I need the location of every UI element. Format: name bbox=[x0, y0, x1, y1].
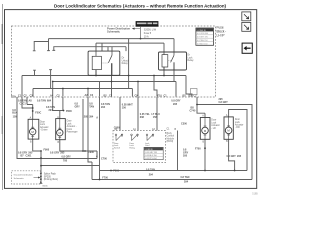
wire relay K1 output to pin B2 bbox=[111, 63, 113, 96]
svg-text:Door: Door bbox=[211, 119, 216, 122]
wire labels left column bbox=[12, 99, 94, 162]
svg-text:156: 156 bbox=[153, 116, 158, 119]
svg-text:Actuator: Actuator bbox=[211, 124, 220, 127]
svg-text:295: 295 bbox=[183, 155, 188, 158]
svg-text:Switch: Switch bbox=[114, 146, 120, 149]
svg-text:Front: Front bbox=[67, 128, 73, 131]
svg-text:A: A bbox=[96, 117, 98, 120]
svg-text:795: 795 bbox=[63, 160, 68, 163]
bus wire y75.7 bbox=[22, 76, 192, 97]
door lock actuator driver bbox=[28, 119, 39, 139]
svg-text:- RR: - RR bbox=[235, 127, 240, 129]
wire relay K1 switch drop bbox=[111, 47, 113, 51]
svg-text:Body: Body bbox=[167, 133, 173, 135]
wire labels center column bbox=[75, 103, 190, 184]
svg-text:0.8 TAN: 0.8 TAN bbox=[181, 176, 190, 179]
svg-text:0.8 GRY 295: 0.8 GRY 295 bbox=[197, 37, 208, 39]
wire ground bus y158 bbox=[41, 158, 97, 160]
svg-text:519B: 519B bbox=[252, 194, 258, 195]
wire ground bus y165.7 bbox=[41, 165, 100, 167]
HOT AT ALL TIMES black banner bbox=[136, 21, 159, 27]
door lock actuator RR bbox=[224, 117, 233, 139]
svg-text:F50C: F50C bbox=[35, 112, 41, 115]
svg-text:294: 294 bbox=[184, 181, 189, 184]
wire x120 drop to C900 bbox=[119, 97, 121, 131]
svg-text:Lock: Lock bbox=[40, 124, 46, 126]
svg-text:F700: F700 bbox=[102, 177, 108, 180]
wire jog to pin F10 bbox=[154, 76, 157, 97]
svg-text:Cntrl: Cntrl bbox=[145, 144, 150, 147]
svg-text:0.8 GRY: 0.8 GRY bbox=[50, 151, 60, 154]
wire long vertical x128.6 bbox=[128, 39, 130, 89]
wire relay K2 coil drop bbox=[163, 43, 165, 52]
svg-text:Schematic: Schematic bbox=[14, 177, 25, 180]
switch S2 unlock bbox=[131, 134, 139, 141]
svg-text:F700: F700 bbox=[195, 148, 201, 151]
wire stub x50.6 bbox=[49, 70, 52, 89]
connector box at pin B2 bbox=[191, 89, 198, 95]
wire x138 drop to door module bbox=[137, 97, 139, 131]
svg-text:Door: Door bbox=[235, 118, 240, 121]
wire right loop inner to RR A bbox=[229, 110, 247, 171]
svg-text:338: 338 bbox=[140, 116, 145, 119]
svg-text:0.35 GRY 295: 0.35 GRY 295 bbox=[145, 152, 157, 154]
wire right loop outer bbox=[197, 105, 252, 180]
wire relay K2 switch drop bbox=[173, 39, 175, 52]
outer frame of schematic viewer bbox=[5, 10, 257, 189]
svg-text:0.8 GRY: 0.8 GRY bbox=[227, 155, 237, 158]
svg-text:0.35 PPL 694: 0.35 PPL 694 bbox=[145, 158, 156, 160]
svg-text:0.35 BLK 150: 0.35 BLK 150 bbox=[145, 155, 156, 157]
svg-text:F900: F900 bbox=[44, 149, 50, 152]
svg-text:0.8 TAN 294: 0.8 TAN 294 bbox=[197, 39, 207, 42]
legend table in module bbox=[144, 147, 163, 160]
svg-text:295: 295 bbox=[84, 116, 89, 119]
svg-text:294: 294 bbox=[149, 173, 154, 176]
svg-text:150: 150 bbox=[13, 115, 18, 118]
svg-text:Actuator -: Actuator - bbox=[67, 125, 77, 128]
svg-text:C700: C700 bbox=[101, 158, 107, 161]
svg-text:Door Lock/Indicator Schematics: Door Lock/Indicator Schematics (Actuator… bbox=[54, 3, 226, 9]
wire pin drop x88 bbox=[87, 89, 89, 97]
bus wire B+ feed y38.6 bbox=[49, 38, 175, 40]
wire x88 drop to bottom bus bbox=[88, 97, 92, 180]
svg-text:295: 295 bbox=[60, 151, 65, 154]
svg-text:694: 694 bbox=[47, 99, 52, 102]
svg-text:F10: F10 bbox=[158, 94, 163, 97]
pin labels row bbox=[11, 94, 197, 99]
svg-text:- LR: - LR bbox=[211, 128, 216, 130]
svg-text:Lock: Lock bbox=[67, 123, 73, 125]
ground distribution schematic note box bbox=[12, 171, 41, 184]
svg-text:Lock: Lock bbox=[235, 122, 241, 124]
door lock actuator front passenger bbox=[56, 119, 66, 140]
left window edge line bbox=[2, 4, 4, 190]
fuse detail table bbox=[196, 28, 214, 45]
svg-text:C2C1: C2C1 bbox=[20, 102, 27, 105]
svg-text:(Driving Illum): (Driving Illum) bbox=[44, 178, 58, 181]
wire ground E10 drop bbox=[17, 97, 41, 159]
wire BCM B output to ground bus bbox=[177, 131, 179, 171]
svg-text:Splice Pack: Splice Pack bbox=[44, 174, 57, 176]
svg-text:Relay: Relay bbox=[122, 62, 129, 65]
svg-text:295: 295 bbox=[173, 103, 178, 106]
svg-text:295: 295 bbox=[237, 155, 242, 158]
svg-text:156: 156 bbox=[122, 106, 127, 109]
door lock actuator LR bbox=[200, 118, 210, 140]
wire driver actuator ground bbox=[33, 139, 41, 151]
wire relay K2 output bbox=[173, 62, 175, 81]
wire B2 C1 drop right bbox=[197, 97, 205, 118]
wire pin drop x99.5 bbox=[99, 82, 101, 97]
svg-text:Lock: Lock bbox=[211, 122, 217, 124]
door switch module dashed box bbox=[113, 131, 166, 163]
wire stub terminal 3 to relay K1 switch bbox=[52, 47, 126, 51]
relay K1 Dr Unlock Relay bbox=[88, 51, 120, 75]
wire passenger actuator ground bbox=[60, 140, 97, 159]
svg-text:Passenger: Passenger bbox=[67, 131, 78, 134]
relay K2 Dr Lock Relay bbox=[159, 52, 187, 70]
svg-text:0.8 TAN: 0.8 TAN bbox=[146, 168, 155, 171]
wire labels right column bbox=[171, 98, 241, 158]
wire relay K2 coil ground bbox=[163, 67, 165, 76]
svg-text:294: 294 bbox=[49, 109, 54, 112]
svg-text:294: 294 bbox=[89, 116, 94, 119]
wire stub terminal 1 bbox=[33, 42, 49, 51]
bus wire y88.4 bbox=[33, 89, 132, 97]
svg-text:- Driver: - Driver bbox=[40, 129, 48, 132]
svg-text:Ground Distribution: Ground Distribution bbox=[14, 173, 34, 176]
svg-text:CONN ID: CONN ID bbox=[197, 30, 206, 32]
svg-text:Door: Door bbox=[67, 120, 72, 123]
wire ground main drop to G201 bbox=[40, 151, 42, 183]
wire driver feed from pins C1 C2 bbox=[22, 97, 33, 119]
svg-text:Schematic: Schematic bbox=[107, 30, 121, 34]
wire x83 ground drop bbox=[82, 99, 84, 151]
wire coil feed y43.1 bbox=[96, 43, 164, 51]
svg-text:Door: Door bbox=[40, 121, 45, 124]
svg-text:0.8 BLK 150: 0.8 BLK 150 bbox=[197, 43, 207, 45]
svg-text:G201: G201 bbox=[42, 185, 48, 187]
svg-text:C301: C301 bbox=[26, 155, 32, 158]
svg-text:C300: C300 bbox=[181, 123, 187, 126]
wire relay K1 coil ground bbox=[95, 70, 97, 76]
switch S1 lock bbox=[115, 134, 123, 141]
fuse block LH IP dashed boundary box bbox=[12, 26, 216, 97]
wire x157 drop to door module bbox=[156, 97, 158, 131]
wire ground bus y170.8 bbox=[100, 170, 248, 172]
wire passenger feed from pins A4 C2 bbox=[53, 97, 64, 119]
svg-text:BLK: BLK bbox=[12, 112, 17, 115]
svg-text:Actuator: Actuator bbox=[40, 126, 49, 129]
svg-text:A: A bbox=[96, 155, 98, 158]
svg-text:C930: C930 bbox=[88, 151, 94, 154]
svg-text:Module: Module bbox=[167, 138, 175, 140]
svg-text:294: 294 bbox=[101, 106, 106, 109]
svg-text:C900: C900 bbox=[114, 126, 120, 129]
button: back arrow bbox=[242, 43, 252, 53]
wire RR actuator ground bbox=[229, 139, 235, 170]
switch S3 bbox=[146, 134, 154, 141]
wire pin drop x138 bbox=[137, 82, 139, 97]
svg-text:P600: P600 bbox=[66, 110, 72, 113]
wire stub terminal 2 bbox=[47, 39, 50, 51]
svg-text:SP205: SP205 bbox=[44, 176, 52, 178]
bus wire y81.1 bbox=[53, 82, 176, 97]
button: zoom-in icon bbox=[242, 22, 251, 31]
wire LR actuator ground bbox=[204, 139, 206, 170]
wire ground bus y179.2 bbox=[92, 179, 252, 181]
svg-text:LH IP: LH IP bbox=[217, 34, 225, 38]
fuse F5 wire from banner bbox=[140, 27, 142, 39]
svg-text:TAN: TAN bbox=[89, 106, 94, 109]
wire stub x34.5 bbox=[33, 70, 36, 75]
svg-text:CONN ID: CONN ID bbox=[145, 149, 153, 151]
svg-text:Control: Control bbox=[167, 135, 175, 138]
svg-text:GRY: GRY bbox=[75, 106, 81, 109]
button: zoom-out icon top bbox=[242, 12, 251, 21]
svg-text:0.8 TAN: 0.8 TAN bbox=[37, 99, 46, 102]
svg-text:(BCM): (BCM) bbox=[167, 141, 174, 143]
wire pin A4 drop bbox=[52, 82, 54, 97]
wire x99.5 drop to C700 bbox=[99, 97, 101, 180]
svg-text:10 A: 10 A bbox=[144, 35, 149, 38]
svg-text:Relay: Relay bbox=[187, 59, 194, 62]
svg-text:P600: P600 bbox=[113, 170, 119, 173]
svg-text:C740: C740 bbox=[190, 109, 196, 112]
svg-text:Actuator: Actuator bbox=[235, 124, 244, 127]
svg-text:0.8 GRY: 0.8 GRY bbox=[219, 101, 229, 104]
wire pin drop x62.9 bbox=[62, 89, 64, 97]
svg-text:0.8 GRY: 0.8 GRY bbox=[62, 155, 72, 158]
svg-text:E10: E10 bbox=[11, 96, 16, 99]
svg-text:0.8 ORN 340: 0.8 ORN 340 bbox=[197, 33, 208, 35]
